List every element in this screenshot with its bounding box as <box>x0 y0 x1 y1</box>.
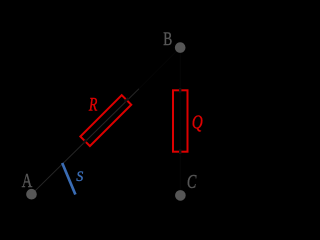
resistor Q <box>173 90 188 151</box>
wire notch over Q top edge <box>179 88 181 93</box>
svg-text:A: A <box>22 171 33 192</box>
wire notch over R top end <box>125 98 129 102</box>
svg-text:B: B <box>163 30 172 50</box>
node B <box>175 42 186 53</box>
wire B-C (black, invisible on background) <box>179 48 181 196</box>
wire R to B (black, invisible on background) <box>139 48 180 89</box>
node A <box>26 189 37 200</box>
switch S <box>62 163 75 195</box>
svg-text:R: R <box>88 95 98 116</box>
wire A to R (visible segment) <box>32 89 140 195</box>
svg-text:Q: Q <box>192 112 203 134</box>
svg-text:C: C <box>187 172 197 193</box>
wire notch over R bottom end <box>83 140 87 144</box>
svg-text:S: S <box>76 169 84 185</box>
wire notch over Q bottom edge <box>179 149 181 154</box>
node C <box>175 190 186 201</box>
resistor R <box>80 95 131 146</box>
